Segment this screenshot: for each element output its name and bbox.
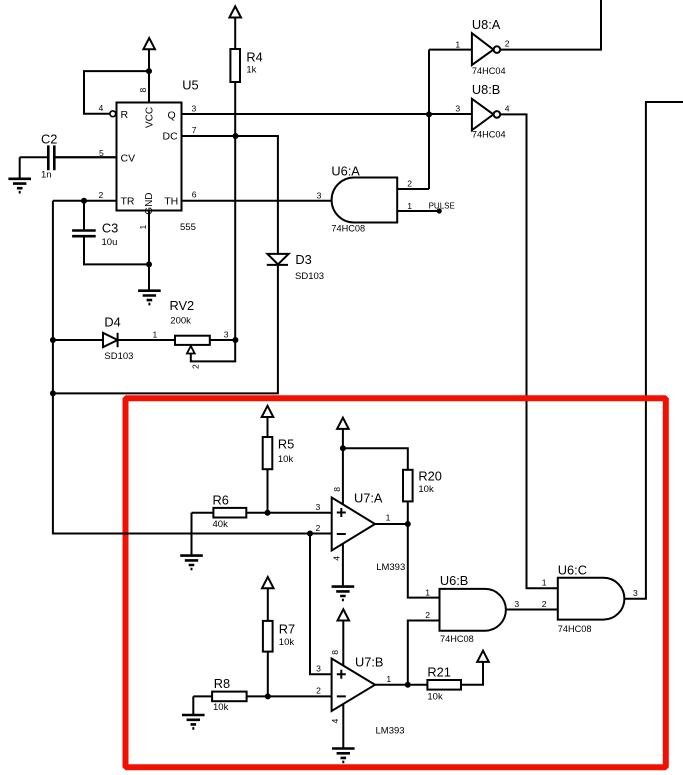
svg-text:U8:A: U8:A <box>472 17 501 32</box>
svg-text:4: 4 <box>331 556 341 561</box>
svg-text:DC: DC <box>163 131 179 143</box>
svg-text:2: 2 <box>99 190 104 200</box>
svg-text:PULSE: PULSE <box>429 202 455 211</box>
svg-text:SD103: SD103 <box>295 271 324 282</box>
svg-text:2: 2 <box>316 686 321 696</box>
svg-text:10k: 10k <box>278 454 294 465</box>
svg-text:1: 1 <box>138 225 148 230</box>
svg-text:2: 2 <box>190 364 200 369</box>
svg-text:10k: 10k <box>427 692 443 703</box>
svg-text:8: 8 <box>330 650 340 655</box>
svg-text:4: 4 <box>99 103 104 113</box>
svg-text:1: 1 <box>386 674 391 684</box>
svg-text:1: 1 <box>425 587 430 597</box>
svg-text:TH: TH <box>164 196 178 208</box>
svg-text:1: 1 <box>455 39 460 49</box>
svg-text:2: 2 <box>316 523 321 533</box>
svg-text:CV: CV <box>121 153 136 165</box>
svg-text:R21: R21 <box>427 665 450 680</box>
svg-text:2: 2 <box>407 179 412 189</box>
svg-text:D4: D4 <box>104 314 120 329</box>
svg-text:2: 2 <box>505 38 510 48</box>
svg-text:R7: R7 <box>279 622 295 637</box>
svg-text:74HC08: 74HC08 <box>558 624 592 634</box>
svg-text:3: 3 <box>192 104 197 114</box>
svg-text:74HC08: 74HC08 <box>440 634 474 644</box>
svg-text:R5: R5 <box>278 436 294 451</box>
svg-text:74HC04: 74HC04 <box>472 66 506 76</box>
svg-text:5: 5 <box>99 148 104 158</box>
svg-text:RV2: RV2 <box>170 298 195 313</box>
svg-text:74HC08: 74HC08 <box>331 224 365 234</box>
svg-text:10k: 10k <box>418 484 434 495</box>
svg-text:2: 2 <box>542 599 547 609</box>
svg-text:R20: R20 <box>418 468 441 483</box>
svg-text:8: 8 <box>138 88 148 93</box>
svg-text:R: R <box>121 109 129 121</box>
svg-text:4: 4 <box>330 719 340 724</box>
svg-text:40k: 40k <box>213 519 229 530</box>
svg-text:U6:C: U6:C <box>558 562 587 577</box>
svg-text:1n: 1n <box>41 169 52 180</box>
svg-text:1: 1 <box>386 513 391 523</box>
svg-text:555: 555 <box>180 222 196 233</box>
svg-text:1k: 1k <box>246 65 256 76</box>
svg-text:3: 3 <box>224 330 229 340</box>
svg-text:1: 1 <box>542 577 547 587</box>
svg-text:U8:B: U8:B <box>472 82 500 97</box>
svg-text:SD103: SD103 <box>104 351 133 362</box>
svg-text:74HC04: 74HC04 <box>472 130 506 140</box>
svg-text:1: 1 <box>407 201 412 211</box>
svg-text:GND: GND <box>144 192 155 214</box>
svg-text:8: 8 <box>332 487 342 492</box>
svg-text:TR: TR <box>121 196 135 208</box>
svg-text:U6:B: U6:B <box>440 573 468 588</box>
svg-text:3: 3 <box>316 502 321 512</box>
svg-text:1: 1 <box>153 330 158 340</box>
svg-text:R8: R8 <box>214 676 230 691</box>
svg-text:4: 4 <box>505 104 510 114</box>
svg-text:U5: U5 <box>182 77 198 92</box>
svg-text:U7:A: U7:A <box>354 491 383 506</box>
svg-text:C2: C2 <box>41 132 57 147</box>
svg-text:R4: R4 <box>246 49 262 64</box>
svg-text:LM393: LM393 <box>376 726 405 737</box>
svg-text:2: 2 <box>425 610 430 620</box>
svg-text:LM393: LM393 <box>376 562 405 573</box>
svg-text:200k: 200k <box>170 316 191 327</box>
svg-text:Q: Q <box>168 110 176 122</box>
svg-text:U6:A: U6:A <box>331 164 360 179</box>
svg-text:U7:B: U7:B <box>355 654 383 669</box>
svg-text:3: 3 <box>455 104 460 114</box>
svg-text:6: 6 <box>192 189 197 199</box>
svg-text:C3: C3 <box>102 221 118 236</box>
svg-text:10k: 10k <box>213 702 229 713</box>
svg-text:10u: 10u <box>102 237 118 248</box>
svg-text:7: 7 <box>192 125 197 135</box>
svg-text:3: 3 <box>317 190 322 200</box>
svg-text:3: 3 <box>633 588 638 598</box>
svg-text:3: 3 <box>316 663 321 673</box>
svg-text:10k: 10k <box>279 637 295 648</box>
svg-text:VCC: VCC <box>145 107 156 128</box>
svg-text:D3: D3 <box>295 252 311 267</box>
svg-text:3: 3 <box>514 599 519 609</box>
svg-text:R6: R6 <box>213 493 229 508</box>
